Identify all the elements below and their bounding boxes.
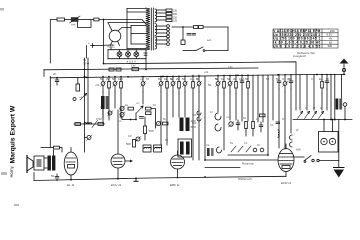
tube V4 xyxy=(278,144,294,176)
capacitor C29 xyxy=(276,122,280,124)
ground wire right xyxy=(338,120,340,168)
primary connection wires xyxy=(127,9,146,49)
svg-text:500: 500 xyxy=(126,142,131,146)
svg-text:1W: 1W xyxy=(131,64,136,68)
resistor R3 xyxy=(131,64,139,71)
resistor R1 xyxy=(57,18,65,21)
resistor R21b xyxy=(163,122,169,125)
node xyxy=(182,26,184,28)
variable capacitor C1 xyxy=(70,16,81,23)
capacitor C24d xyxy=(140,117,144,119)
transformer core xyxy=(150,8,152,50)
svg-text:1C: 1C xyxy=(210,110,213,114)
tap labels xyxy=(173,10,178,23)
resistor R21 xyxy=(144,117,154,140)
resistor R23 xyxy=(98,123,104,126)
trimmer C23 xyxy=(120,106,126,112)
resistor Rx236 xyxy=(233,75,237,94)
lamp L2 xyxy=(126,50,131,59)
coil L3 xyxy=(336,99,343,110)
svg-text:C9: C9 xyxy=(83,62,87,66)
node xyxy=(334,119,336,121)
svg-text:K: K xyxy=(320,106,322,110)
svg-text:6,3V: 6,3V xyxy=(327,33,333,37)
mains fuse line xyxy=(172,26,193,28)
svg-text:+: + xyxy=(88,41,90,45)
resistor Rx193 xyxy=(190,75,195,94)
capacitor C30 xyxy=(51,174,59,178)
bus H3 xyxy=(50,74,345,77)
trimmer C185 xyxy=(182,77,188,93)
IF transformer T2 xyxy=(180,118,196,132)
coil L4 xyxy=(278,130,279,137)
svg-text:ECH 11: ECH 11 xyxy=(111,183,122,187)
resistor R20 xyxy=(146,107,152,114)
wire xyxy=(151,109,156,128)
indicator circle xyxy=(343,103,347,120)
capacitor C4 xyxy=(181,27,185,45)
resistor R21c xyxy=(126,140,136,148)
power transformer T1 primary xyxy=(146,8,150,50)
svg-text:500: 500 xyxy=(149,129,154,133)
resistor R25 xyxy=(252,122,255,137)
svg-text:0,1: 0,1 xyxy=(270,123,274,127)
bus H1 xyxy=(104,62,297,75)
wire mains right xyxy=(227,27,229,51)
svg-text:2k: 2k xyxy=(176,77,180,81)
svg-text:AW: AW xyxy=(296,148,301,152)
capacitor C27 xyxy=(236,120,240,130)
svg-text:0,5M: 0,5M xyxy=(96,117,102,121)
resistor R22 xyxy=(75,123,81,126)
tap terminals xyxy=(166,9,172,45)
capacitor C4b xyxy=(187,34,195,36)
heater rails xyxy=(108,49,146,51)
svg-text:2k: 2k xyxy=(233,77,237,81)
svg-text:+0: +0 xyxy=(140,77,144,81)
trimmer C25 xyxy=(85,135,93,141)
svg-text:Ea: Ea xyxy=(319,77,323,81)
row y124 components xyxy=(74,123,105,125)
svg-text:Marquis Export W: Marquis Export W xyxy=(10,105,17,163)
switch arc xyxy=(217,147,222,153)
transformer secondary windings xyxy=(155,9,157,22)
trimmer C103 xyxy=(100,77,106,93)
svg-text:M: M xyxy=(313,106,315,110)
svg-text:0,1: 0,1 xyxy=(196,77,200,81)
fuse F1 xyxy=(194,26,199,29)
svg-text:220: 220 xyxy=(330,29,335,33)
resistor Rx109 xyxy=(106,77,110,95)
svg-text:50: 50 xyxy=(112,77,116,81)
wires speaker xyxy=(44,157,47,159)
antenna symbol xyxy=(340,59,349,75)
transformer taps xyxy=(157,10,167,44)
switch contacts xyxy=(290,135,293,140)
svg-text:50: 50 xyxy=(100,77,104,81)
svg-text:+C: +C xyxy=(226,115,230,119)
resistor R24 xyxy=(245,122,248,137)
wire xyxy=(61,148,63,153)
IF coils above V3 xyxy=(143,145,162,152)
trimmer C173 xyxy=(170,77,176,93)
variable arrows row xyxy=(298,112,324,119)
switch arcs xyxy=(215,113,221,120)
wire antenna top loop xyxy=(50,20,57,64)
svg-text:50: 50 xyxy=(182,77,186,81)
bottom bus xyxy=(34,176,286,180)
node dots xyxy=(130,119,137,121)
svg-text:6C: 6C xyxy=(153,103,156,107)
resistor R26 xyxy=(260,114,266,117)
trimmer C23b xyxy=(120,112,126,118)
svg-text:a-b: a-b xyxy=(207,38,212,42)
resistor R4 xyxy=(109,68,114,71)
svg-text:2C: 2C xyxy=(257,143,260,147)
wire to transformer xyxy=(99,20,146,25)
coil L5 xyxy=(207,148,214,156)
svg-text:1M: 1M xyxy=(128,134,132,138)
wires to V4 xyxy=(205,159,278,161)
node A xyxy=(103,19,105,21)
svg-text:Ca: Ca xyxy=(206,143,210,147)
resistor Rx167 xyxy=(164,77,168,95)
bottom cluster arrows xyxy=(231,146,264,152)
trimmer C24c xyxy=(156,121,161,126)
svg-text:Raumton: Raumton xyxy=(242,162,255,166)
capacitor Cx291 xyxy=(288,75,293,89)
resistor R2 xyxy=(94,18,99,21)
lamp L1 xyxy=(117,50,122,59)
svg-text:125: 125 xyxy=(173,20,178,23)
resistor Rx322 xyxy=(319,75,323,95)
svg-text:EBF 11: EBF 11 xyxy=(170,183,180,187)
coil L1 pair xyxy=(101,96,109,118)
anode wires xyxy=(108,23,145,31)
trimmer C285 xyxy=(282,75,288,92)
trimmer C218 xyxy=(215,75,221,92)
wire bypass loop xyxy=(78,20,92,28)
resistor R27 xyxy=(54,146,63,155)
svg-text:Horny: Horny xyxy=(9,165,14,177)
variable arrow xyxy=(92,121,98,128)
svg-text:65: 65 xyxy=(329,40,332,44)
trimmer C22 xyxy=(108,111,114,117)
svg-text:EL 11: EL 11 xyxy=(67,183,75,187)
trimmer C199 xyxy=(196,75,202,92)
wire xyxy=(228,154,268,156)
switch S1 xyxy=(183,50,196,52)
coil loops xyxy=(197,111,201,121)
svg-text:500: 500 xyxy=(192,121,197,125)
variable arrow xyxy=(137,106,144,113)
coil L2 xyxy=(84,123,92,124)
rectifier tube U1 AZ11 xyxy=(109,30,121,42)
wire xyxy=(65,19,71,21)
trimmer C143 xyxy=(140,77,146,93)
svg-text:+C: +C xyxy=(136,101,140,105)
wire xyxy=(79,19,94,21)
title text xyxy=(9,105,17,177)
trimmer C26 xyxy=(229,122,235,128)
svg-text:0,1: 0,1 xyxy=(241,77,245,81)
svg-text:4V: 4V xyxy=(329,37,332,41)
ground chassis xyxy=(134,177,138,181)
svg-text:50: 50 xyxy=(208,83,212,87)
resistor Rx248 xyxy=(245,75,249,94)
svg-text:+2k: +2k xyxy=(204,70,209,74)
wire heater left xyxy=(110,47,112,50)
svg-text:2k: 2k xyxy=(106,77,110,81)
wire row line xyxy=(293,119,352,121)
capacitor C5 xyxy=(53,72,59,85)
lamp L3 xyxy=(134,50,139,59)
svg-text:500: 500 xyxy=(191,125,196,129)
resistor Rx224 xyxy=(221,75,225,94)
svg-text:1k: 1k xyxy=(221,77,225,81)
svg-text:1k: 1k xyxy=(164,77,168,81)
voltage table xyxy=(273,29,338,48)
resistor R20b xyxy=(128,107,134,110)
capacitor C2 xyxy=(88,41,94,48)
svg-text:C: C xyxy=(100,105,102,109)
switch right bottom xyxy=(294,156,339,163)
svg-text:0,1: 0,1 xyxy=(244,141,248,145)
svg-text:EFM 11: EFM 11 xyxy=(281,181,292,185)
capacitor Cx242 xyxy=(239,75,244,89)
output transformer T4 xyxy=(48,156,56,171)
wire xyxy=(203,26,228,28)
svg-text:Ant: Ant xyxy=(71,22,76,26)
trimmer C161 xyxy=(158,77,164,93)
svg-text:1M: 1M xyxy=(287,77,291,81)
potentiometer P1 xyxy=(73,78,87,101)
wire top xyxy=(41,147,54,149)
svg-text:50: 50 xyxy=(245,77,249,81)
wire heater right down xyxy=(145,59,147,70)
wire down to H1 xyxy=(103,20,105,64)
capacitor Cx279 xyxy=(276,75,281,89)
svg-text:0,5: 0,5 xyxy=(311,77,315,81)
speaker xyxy=(27,156,44,173)
svg-text:6C: 6C xyxy=(282,117,285,121)
resistor Rx179 xyxy=(176,77,180,95)
junction dots bottom xyxy=(56,176,206,181)
svg-text:50: 50 xyxy=(276,77,280,81)
svg-text:+5k: +5k xyxy=(95,83,100,87)
svg-text:14C: 14C xyxy=(228,65,233,69)
resistor Rx121 xyxy=(118,77,122,95)
svg-text:300: 300 xyxy=(328,44,333,48)
svg-text:50: 50 xyxy=(51,174,55,178)
tube V3 xyxy=(171,151,185,178)
trimmer C24b xyxy=(136,136,141,141)
capacitor Cx327 xyxy=(325,75,329,90)
wire xyxy=(93,44,111,47)
earth ground symbol xyxy=(334,168,345,178)
wire left top xyxy=(43,70,45,77)
svg-text:Wellensch.: Wellensch. xyxy=(238,177,253,181)
tuning box with circles xyxy=(319,120,339,153)
tube V2 xyxy=(111,110,133,179)
svg-text:2h: 2h xyxy=(53,72,57,76)
output tube V1 xyxy=(64,148,78,180)
svg-text:50: 50 xyxy=(158,77,162,81)
svg-text:Uk 0 1,9 2,2 6,8 4,6 55: Uk 0 1,9 2,2 6,8 4,6 55 xyxy=(273,44,320,48)
svg-text:0,1: 0,1 xyxy=(118,119,122,123)
pins xyxy=(111,41,114,45)
table text xyxy=(273,29,335,55)
svg-text:5a: 5a xyxy=(227,77,231,81)
capacitor C28 xyxy=(259,122,263,132)
wire xyxy=(86,46,88,59)
IF transformer T3 xyxy=(178,139,192,157)
trimmer C115 xyxy=(112,77,118,93)
misc labels row1 xyxy=(79,58,329,147)
capacitor C3 xyxy=(144,53,147,55)
svg-text:Ausgleich: Ausgleich xyxy=(293,54,306,58)
junction dots on bus xyxy=(56,63,346,161)
svg-text:0,1: 0,1 xyxy=(190,77,195,81)
trimmer C230 xyxy=(227,75,233,92)
bus H2 xyxy=(44,68,258,70)
wire xyxy=(122,113,136,120)
svg-text:100: 100 xyxy=(192,113,197,117)
long vertical wires xyxy=(50,58,341,160)
